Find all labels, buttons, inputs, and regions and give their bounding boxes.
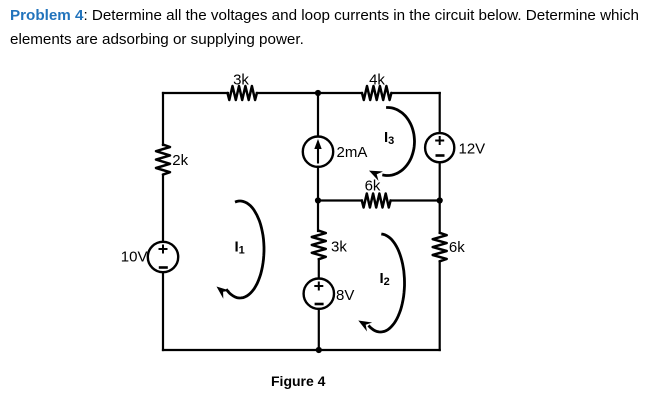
node: bottom middle junction [316,347,322,353]
svg-text:10V: 10V [121,249,148,266]
wire left lower [162,272,164,350]
wire middle branch (source to node) [317,167,319,201]
wire right below node [439,201,441,234]
svg-text:I2: I2 [380,270,390,288]
svg-text:4k: 4k [369,72,385,89]
wire top-left segment [163,92,228,94]
wire left middle [162,175,164,242]
svg-text:8V: 8V [336,287,354,304]
node: right junction (12V / 6k row) [437,197,443,203]
resistor 4k (top right) [362,72,391,101]
svg-text:2mA: 2mA [337,144,368,161]
node: top middle junction [315,90,321,96]
voltage source 10V [121,242,178,272]
resistor 6k (middle row) [362,178,391,208]
wire top-middle segment [257,92,362,94]
loop current I1 arrow [217,201,265,299]
wire middle branch below node [317,201,319,232]
voltage source 8V [304,279,355,309]
problem statement text [10,4,646,52]
svg-text:2k: 2k [172,152,188,169]
wire 6k-row left segment [318,199,362,201]
wire right lower [439,261,441,350]
svg-text:I1: I1 [235,239,245,257]
voltage source 12V [425,133,485,162]
wire middle-branch top [317,93,319,137]
wire 3k to 8V source [318,259,320,279]
wire right upper [439,93,441,134]
svg-text:I3: I3 [384,129,394,147]
svg-text:6k: 6k [449,239,465,256]
loop current I2 arrow [358,234,404,332]
resistor 3k (top left) [228,72,257,101]
wire bottom [163,349,440,351]
svg-text:3k: 3k [233,72,249,89]
resistor 2k (left branch) [156,145,189,175]
wire 12V to node [439,162,441,200]
node: middle junction (2mA / 6k row) [315,197,321,203]
wire left upper [162,93,164,145]
resistor 6k (right branch) [433,233,466,261]
loop current I3 arrow [369,108,415,181]
svg-text:3k: 3k [331,239,347,256]
svg-text:12V: 12V [459,141,486,158]
svg-text:6k: 6k [365,178,381,195]
wire 8V to bottom [318,309,320,350]
resistor 3k (middle branch) [312,231,348,260]
caption Figure 4 [271,373,325,389]
current source 2mA [303,137,368,167]
wire 6k-row right segment [391,199,440,201]
wire top-right segment [391,92,439,94]
